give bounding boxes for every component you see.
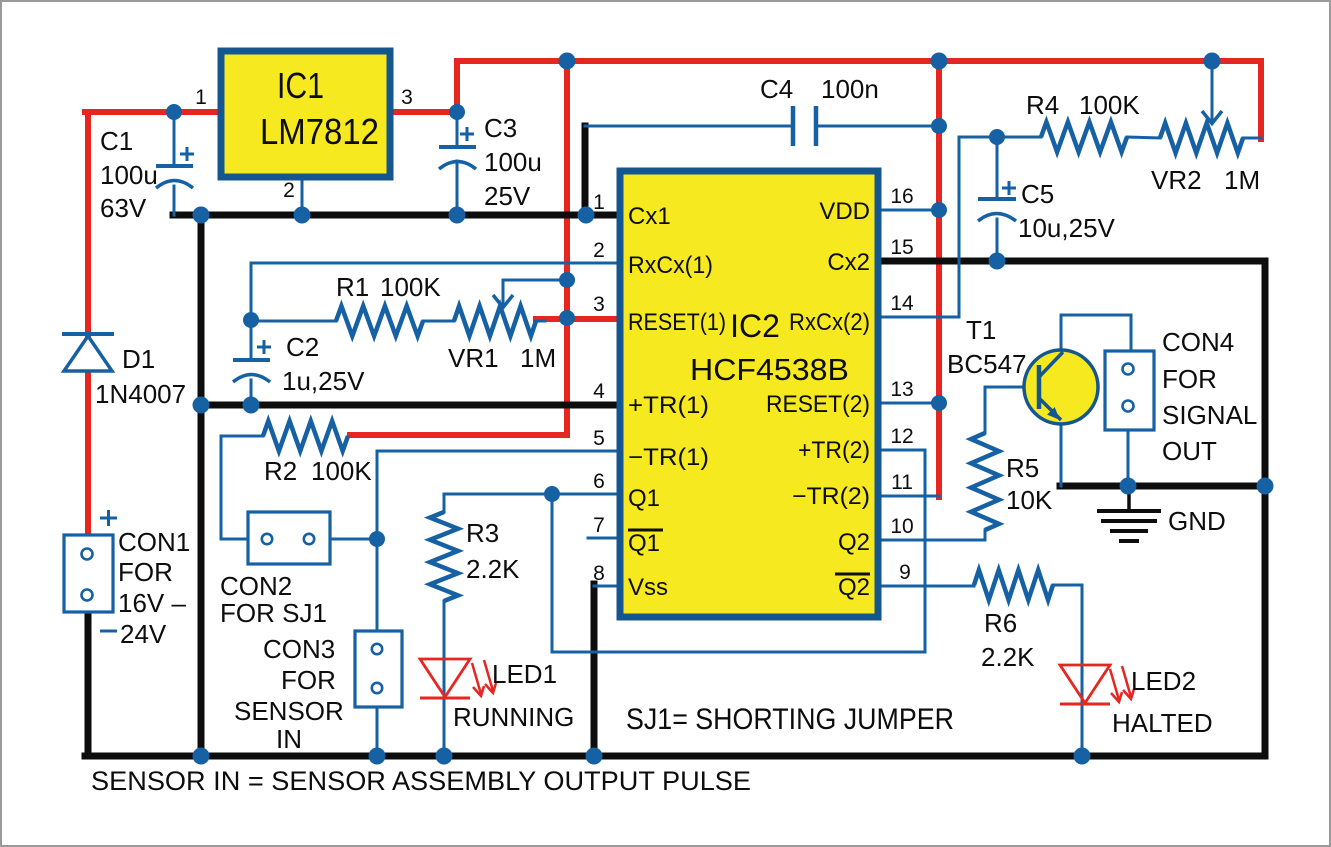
node: VR1 wiper / red bus (559, 272, 575, 288)
wire: R4-VR2 link (1127, 137, 1160, 138)
wire: black rail +TR(1) y405 (201, 402, 620, 409)
svg-text:GND: GND (1168, 506, 1226, 536)
label CON3 (234, 634, 344, 754)
node: top rail / VR2 wiper (1204, 53, 1221, 70)
svg-text:RESET(1): RESET(1) (628, 309, 726, 336)
wire: IC1 pin2 stem (301, 177, 304, 215)
svg-text:5: 5 (593, 427, 605, 450)
potentiometer VR1 wiper arrow (493, 295, 513, 308)
node: bottom rail / left bus (193, 748, 210, 765)
transistor T1 (1024, 350, 1098, 424)
wire: VR2 right lead to red (1243, 137, 1261, 140)
svg-text:14: 14 (890, 292, 914, 315)
svg-text:Cx2: Cx2 (827, 249, 870, 276)
svg-text:1N4007: 1N4007 (95, 379, 186, 409)
pin label overline Q2bar (835, 573, 870, 576)
wire: black Vss vertical (591, 584, 598, 756)
svg-text:7: 7 (593, 514, 605, 537)
node: bottom rail / CON3 (369, 748, 386, 765)
svg-text:FOR: FOR (1162, 364, 1217, 394)
wire: red stub RESET(1) pin3 (536, 316, 620, 322)
node: C5 / Cx2 rail (989, 253, 1006, 270)
pin label overline Q1bar (628, 529, 663, 532)
svg-text:SIGNAL: SIGNAL (1162, 400, 1257, 430)
node: R1/C2 junction (243, 312, 259, 328)
svg-text:RUNNING: RUNNING (453, 702, 574, 732)
label VR2 value (1151, 165, 1260, 195)
label D1 value (95, 344, 186, 409)
node: C3/pin3 junction (449, 104, 465, 120)
svg-text:+TR(2): +TR(2) (798, 437, 870, 464)
wire: T1 emitter wire to GND rail (1060, 420, 1063, 486)
wire: VR1 wiper to red bus (503, 280, 567, 306)
wire: C1 bottom stem (173, 186, 176, 215)
node: RESET(1) / red bus (559, 310, 575, 326)
svg-text:C1: C1 (100, 126, 133, 156)
svg-text:100n: 100n (821, 74, 879, 104)
label R6 value (981, 608, 1035, 672)
svg-text:SJ1= SHORTING JUMPER: SJ1= SHORTING JUMPER (626, 703, 954, 736)
svg-text:2.2K: 2.2K (981, 642, 1035, 672)
connector CON4 (1105, 351, 1154, 430)
wire: R1-VR1 link (423, 320, 454, 323)
capacitor C1 (156, 147, 194, 188)
potentiometer VR2 wiper arrow (1202, 111, 1222, 124)
node: Q1 / cross-coupling (544, 486, 560, 502)
label C3 value (484, 113, 542, 211)
resistor R4 (1041, 122, 1127, 152)
wire: RxCx(2) pin14 wire up to R4 (877, 137, 1041, 317)
resistor R6 (974, 570, 1053, 600)
svg-text:RESET(2): RESET(2) (766, 391, 870, 418)
wire: C4 left lead (585, 125, 793, 128)
resistor R3 (430, 512, 458, 601)
svg-text:4: 4 (593, 380, 605, 403)
svg-text:CON2: CON2 (220, 571, 292, 601)
wire: C4 right lead (816, 125, 939, 128)
label CON2 (220, 571, 327, 628)
pin numbers IC2 right (890, 185, 914, 584)
label R5 value (1006, 453, 1053, 515)
svg-text:Q2: Q2 (838, 529, 870, 556)
svg-text:1: 1 (195, 86, 207, 109)
wire: VDD pin16 stub (877, 209, 939, 212)
svg-text:OUT: OUT (1162, 436, 1217, 466)
node: C4 / red bus (931, 118, 947, 134)
svg-text:Cx1: Cx1 (628, 203, 671, 230)
svg-text:FOR SJ1: FOR SJ1 (220, 598, 327, 628)
svg-text:VDD: VDD (819, 198, 870, 225)
label T1 value (947, 315, 1027, 379)
wire: CON4 bottom lead (1127, 430, 1130, 486)
wire: red from IC1 pin3 to corner (390, 61, 457, 112)
svg-text:Q1: Q1 (628, 485, 660, 512)
svg-text:25V: 25V (484, 181, 531, 211)
diode D1 (62, 334, 114, 371)
wire: red right vertical bus VDD (936, 61, 942, 497)
svg-text:RxCx(2): RxCx(2) (789, 309, 870, 336)
wire: C5 top stem (996, 137, 999, 199)
svg-text:D1: D1 (122, 344, 155, 374)
wire: Q1bar pin7 stub (588, 537, 620, 540)
wire: VR2 wiper from top rail (1211, 61, 1214, 121)
svg-text:3: 3 (401, 86, 413, 109)
label R2 value (264, 456, 372, 486)
ground symbol GND (1097, 490, 1161, 541)
svg-text:16V –: 16V – (118, 588, 186, 618)
wire: R3 to LED1 and bottom rail (443, 601, 446, 756)
label LED2 (1112, 666, 1213, 738)
wire: black vertical C4 link (582, 126, 589, 215)
wire: C5 bottom stem (996, 219, 999, 261)
svg-text:100u: 100u (100, 160, 158, 190)
LED2 (1060, 665, 1134, 704)
svg-text:RxCx(1): RxCx(1) (628, 252, 713, 279)
node: RESET(2) / red bus (931, 395, 947, 411)
wire: C2 bottom stem (250, 380, 253, 405)
label R4 value (1026, 90, 1140, 120)
node: rail y405 / C2 (243, 397, 260, 414)
wire: black left vertical bus (198, 215, 205, 756)
svg-text:C2: C2 (286, 332, 319, 362)
wire: VR1 right lead to red (536, 320, 545, 323)
svg-text:T1: T1 (966, 315, 996, 345)
node: GND rail / CON4 (1120, 478, 1137, 495)
wire: cross-coupling Q1 to +TR(2) (552, 450, 925, 652)
svg-text:−TR(2): −TR(2) (792, 483, 870, 510)
node: bottom rail / LED1 (436, 748, 453, 765)
label CON4 (1162, 327, 1257, 466)
wire: T1 collector wire to CON4 (1061, 315, 1131, 352)
svg-text:3: 3 (593, 293, 605, 316)
node: top rail / mid bus (559, 53, 576, 70)
wire: red left vertical from D1 to CON1 (85, 371, 91, 537)
svg-text:+TR(1): +TR(1) (628, 392, 709, 419)
svg-text:VR1: VR1 (448, 343, 499, 373)
svg-text:CON3: CON3 (263, 634, 335, 664)
svg-text:2: 2 (283, 179, 295, 202)
capacitor C5 (978, 181, 1016, 221)
svg-text:R5: R5 (1006, 453, 1039, 483)
svg-text:R4: R4 (1026, 90, 1059, 120)
svg-text:LED1: LED1 (492, 659, 557, 689)
wire: Vss pin8 stub (594, 585, 620, 588)
wire: C3 top stem (456, 112, 459, 147)
wire: C2 top stem (250, 320, 253, 360)
wire: black GND rail y486 (1060, 483, 1265, 490)
resistor R5 (971, 433, 999, 530)
capacitor C4 (793, 106, 816, 146)
pin numbers IC1 (195, 86, 413, 202)
node: VDD / red bus (931, 202, 947, 218)
pin numbers IC2 left (593, 191, 605, 585)
wire: CON2 right lead (330, 538, 377, 541)
svg-text:11: 11 (891, 471, 913, 494)
svg-text:C3: C3 (484, 113, 517, 143)
connector CON3 (355, 631, 402, 707)
wire: red horizontal into IC1 pin1 (85, 109, 221, 115)
svg-text:R6: R6 (984, 608, 1017, 638)
svg-text:CON1: CON1 (118, 527, 190, 557)
svg-text:HALTED: HALTED (1112, 708, 1213, 738)
svg-text:C4: C4 (760, 74, 793, 104)
capacitor C2 (233, 340, 271, 382)
wire: R5 top lead to T1 base (985, 387, 1039, 433)
svg-text:8: 8 (593, 562, 605, 585)
label CON1 (118, 527, 190, 649)
node: C1/pin1 junction (166, 104, 182, 120)
connector CON2 (248, 512, 330, 564)
svg-text:BC547: BC547 (947, 349, 1027, 379)
LED1 (420, 659, 496, 698)
node: top rail / right bus (931, 53, 948, 70)
svg-text:63V: 63V (100, 193, 147, 223)
potentiometer VR2 (1160, 123, 1243, 153)
op-amp U1: voltage regulator IC1 LM7812 box (221, 51, 390, 177)
label VR1 value (448, 343, 556, 373)
pin labels IC2 left (628, 203, 726, 601)
svg-text:24V: 24V (120, 619, 167, 649)
label R1 value (336, 272, 441, 302)
svg-text:16: 16 (890, 185, 913, 208)
wire: R2 left lead (221, 436, 263, 539)
svg-text:Q1: Q1 (628, 530, 660, 557)
svg-text:1M: 1M (520, 343, 556, 373)
svg-text:VR2: VR2 (1151, 165, 1202, 195)
svg-text:10: 10 (890, 515, 913, 538)
capacitor C3 (439, 127, 476, 169)
svg-text:12: 12 (890, 425, 913, 448)
label LED1 (453, 659, 574, 732)
wire: R6 right lead to LED2 and bottom rail (1053, 585, 1082, 756)
resistor R2 (263, 421, 348, 451)
svg-text:SENSOR: SENSOR (234, 696, 344, 726)
svg-text:LED2: LED2 (1131, 666, 1196, 696)
svg-text:2.2K: 2.2K (466, 554, 520, 584)
label C2 value (282, 332, 365, 396)
svg-text:R3: R3 (466, 518, 499, 548)
node: C5 / R4 junction (989, 129, 1005, 145)
svg-text:FOR: FOR (118, 557, 173, 587)
svg-text:Vss: Vss (628, 574, 668, 601)
wire: Q1 pin6 wire to R3 (444, 494, 620, 512)
node: rail y215 / left bus (193, 207, 210, 224)
wire: black bottom ground rail (85, 753, 1265, 760)
wire: Q2 pin10 wire to R5 (877, 530, 985, 540)
label C5 value (1018, 179, 1116, 243)
label C1 value (100, 126, 158, 223)
svg-text:C5: C5 (1021, 179, 1054, 209)
svg-text:2: 2 (593, 239, 605, 262)
wire: red mid vertical bus to R2 (350, 61, 567, 435)
svg-text:−TR(1): −TR(1) (628, 444, 709, 471)
wire: red top power rail (457, 61, 1261, 139)
svg-text:9: 9 (899, 561, 911, 584)
wire: RxCx(1) pin2 wire (251, 263, 620, 320)
pin labels IC2 right (766, 198, 870, 601)
svg-text:HCF4538B: HCF4538B (690, 352, 849, 387)
svg-text:100u: 100u (484, 147, 542, 177)
label C4 value (760, 74, 879, 104)
wire: -TR(2) pin11 stub (877, 495, 939, 498)
svg-text:Q2: Q2 (838, 574, 870, 601)
wire: black right vertical rail (877, 261, 1265, 756)
svg-text:FOR: FOR (281, 665, 336, 695)
wire: black ground rail y215 (173, 212, 620, 219)
svg-text:10u,25V: 10u,25V (1018, 213, 1116, 243)
node: rail y215 / IC1 pin2 (294, 207, 311, 224)
wire: RESET(2) pin13 stub (877, 402, 939, 405)
wire: C1 top stem (173, 112, 176, 166)
node: rail y215 / C3 (449, 207, 466, 224)
svg-text:IC1: IC1 (277, 65, 324, 106)
svg-text:LM7812: LM7812 (260, 111, 379, 152)
wire: black CON1 to bottom rail (85, 612, 92, 756)
wire: R1 left lead (251, 320, 336, 323)
resistor R1 (336, 306, 423, 336)
wire: red left vertical from corner to D1 (85, 112, 91, 334)
svg-text:6: 6 (593, 470, 605, 493)
node: rail y215 / C4 link (578, 207, 595, 224)
svg-text:100K: 100K (311, 456, 372, 486)
svg-text:100K: 100K (1079, 90, 1140, 120)
node: rail y405 / left bus (193, 397, 210, 414)
wire: -TR(1) pin5 wire down through CON3 (377, 451, 620, 631)
svg-text:1u,25V: 1u,25V (282, 366, 365, 396)
wire: Q2bar pin9 wire to R6 (877, 585, 974, 588)
svg-text:13: 13 (890, 378, 913, 401)
node: GND rail / right rail (1257, 478, 1274, 495)
svg-text:CON4: CON4 (1162, 327, 1234, 357)
svg-text:R1: R1 (336, 272, 369, 302)
svg-text:1M: 1M (1224, 165, 1260, 195)
svg-text:1: 1 (593, 191, 605, 214)
svg-text:SENSOR IN = SENSOR ASSEMBLY OU: SENSOR IN = SENSOR ASSEMBLY OUTPUT PULSE (91, 766, 751, 796)
svg-text:100K: 100K (380, 272, 441, 302)
wire: C3 bottom stem (456, 161, 459, 215)
node: bottom rail / LED2 (1074, 748, 1091, 765)
wire: CON3 bottom lead (376, 707, 379, 756)
op-amp U2: monostable IC2 HCF4538B box (620, 171, 878, 617)
svg-text:R2: R2 (264, 456, 297, 486)
node: bottom rail / Vss (586, 748, 603, 765)
node: CON2 / pin5 line (369, 531, 385, 547)
potentiometer VR1 (454, 306, 536, 336)
svg-text:IC2: IC2 (730, 308, 780, 344)
svg-text:IN: IN (276, 724, 302, 754)
svg-text:15: 15 (890, 236, 913, 259)
svg-text:10K: 10K (1006, 485, 1053, 515)
connector CON1 (64, 510, 117, 631)
label R3 value (466, 518, 520, 584)
